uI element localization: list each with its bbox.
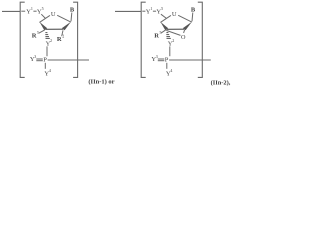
label Y1 (top chain) (26, 6, 33, 16)
ring edge U-C1' (57, 15, 71, 22)
svg-text:R: R (32, 32, 37, 39)
bond bracket-Y1 (unit 2) (142, 10, 145, 12)
bond Y2-P (46, 46, 48, 56)
svg-text:3: 3 (34, 54, 36, 59)
svg-text:P: P (43, 56, 47, 63)
wire P to chain exit (48, 59, 89, 61)
hashed stereo bond C3'-Y2 (unit 2) (166, 33, 171, 39)
ring edge U-C4' (39, 15, 50, 22)
hashed stereo bond C3'-Y2 (45, 33, 50, 39)
linker atom Y2 (46, 38, 52, 47)
label Y4 (phosphate) (44, 68, 51, 77)
bond O-C4' bridge (166, 30, 180, 35)
ring bottom edge C3'-C2' (46, 28, 64, 30)
unit IIn-2 left chain entry wire (115, 10, 142, 12)
label Y3 (phosphate) (30, 54, 36, 63)
bond bracket-Y1 (21, 10, 25, 12)
svg-text:B: B (191, 7, 196, 14)
label Y1 (top chain, unit 2) (146, 6, 153, 16)
ring edge U-C1' (unit 2) (178, 15, 192, 22)
svg-text:2: 2 (50, 38, 52, 43)
svg-text:(IIn-1) or: (IIn-1) or (88, 78, 114, 85)
ring bold wedge C1'-C2' (unit 2) (183, 22, 192, 31)
ring bold wedge C4'-C3' (unit 2) (161, 22, 169, 30)
bond P-Y4 (unit 2) (166, 63, 168, 69)
label Y5 (top chain, unit 2) (156, 6, 163, 16)
ring edge U-C4' (unit 2) (160, 15, 171, 22)
double bond Y3=P (36, 59, 43, 61)
svg-text:3: 3 (156, 54, 158, 59)
bond C1'-B (70, 13, 73, 22)
bond P-Y4 (44, 63, 46, 69)
label Y3 (phosphate, unit 2) (151, 54, 157, 63)
bond C2'-O bridge (184, 30, 185, 33)
svg-text:1: 1 (150, 6, 152, 11)
svg-text:4: 4 (170, 68, 172, 73)
substituent R2 (57, 34, 64, 43)
double bond Y3=P (unit 2) (158, 59, 165, 61)
svg-text:5: 5 (42, 6, 44, 11)
label Y4 (phosphate, unit 2) (166, 68, 173, 77)
bond R5-C3' (39, 30, 45, 33)
bond Y5 to ring C4' (unit 2) (161, 14, 167, 18)
svg-text:R: R (154, 32, 159, 39)
bond R5-C3' (unit 2) (161, 30, 166, 33)
substituent R5 (unit 2) (154, 30, 161, 39)
unit IIn-1 right bracket (73, 2, 78, 77)
svg-text:R: R (57, 36, 62, 43)
ring bold wedge C4'-C3' (40, 22, 48, 30)
svg-text:5: 5 (161, 6, 163, 11)
wire P to chain exit (unit 2) (169, 59, 211, 61)
unit IIn-1 left chain entry wire (2, 10, 20, 12)
linker atom Y2 (unit 2) (168, 38, 174, 47)
svg-text:U: U (172, 11, 177, 18)
svg-text:(IIn-2),: (IIn-2), (211, 79, 231, 86)
substituent R5 (32, 30, 39, 39)
svg-text:O: O (181, 34, 186, 41)
label Y5 (top chain) (37, 6, 44, 16)
ring bottom edge C3'-C2' (unit 2) (167, 28, 185, 30)
bond R2-C2' (62, 30, 63, 36)
svg-text:2: 2 (172, 38, 174, 43)
unit IIn-2 right bracket (198, 2, 203, 77)
svg-text:U: U (51, 11, 56, 18)
bond Y2-P (unit 2) (169, 46, 171, 56)
bond C1'-B (unit 2) (191, 13, 194, 22)
svg-text:B: B (70, 7, 75, 14)
unit IIn-2 left bracket (141, 2, 146, 77)
bond Y1-Y5 (unit 2) (153, 10, 156, 12)
unit IIn-1 left bracket (20, 2, 25, 77)
svg-text:4: 4 (49, 68, 51, 73)
svg-text:P: P (165, 56, 169, 63)
ring bold wedge C1'-C2' (62, 22, 71, 31)
svg-text:5: 5 (37, 30, 39, 35)
bond Y5 to ring C4' (41, 14, 45, 18)
bond Y1-Y5 (33, 10, 36, 12)
svg-text:1: 1 (31, 6, 33, 11)
